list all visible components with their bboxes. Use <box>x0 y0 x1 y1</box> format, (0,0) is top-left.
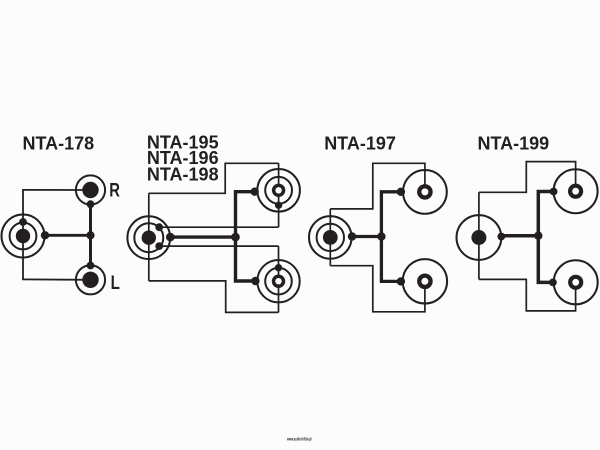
connector top socket circle <box>554 169 598 213</box>
connector J4 center pin <box>471 230 486 245</box>
wire center pin branch path <box>236 192 256 281</box>
connector J4 right terminal dot <box>497 233 505 241</box>
connector bottom socket outer circle <box>257 260 299 302</box>
wire vertical through top socket <box>278 163 280 227</box>
wire top to R center <box>22 189 90 191</box>
svg-text:L: L <box>111 271 120 293</box>
wire center branch path <box>381 192 401 282</box>
connector J4 plug circle <box>457 215 502 260</box>
connector top socket ring <box>272 184 285 197</box>
wire shell loop vertical through plug J1 <box>22 190 24 280</box>
connector top socket ring <box>568 184 583 199</box>
connector top socket outer circle <box>257 169 300 212</box>
wire shell vertical through plug J4 <box>478 192 480 279</box>
connector top socket ring <box>417 184 433 200</box>
svg-text:NTA-199: NTA-199 <box>478 134 550 154</box>
wire top shell staircase <box>479 162 576 193</box>
svg-text:NTA-178: NTA-178 <box>23 134 95 154</box>
connector L center pin <box>82 272 98 288</box>
wire shell vertical through plug J2 <box>148 193 150 281</box>
connector bottom socket ring <box>417 274 433 290</box>
junction node <box>231 233 240 242</box>
connector J3 right terminal dot <box>348 232 356 240</box>
connector J3 plug outer circle <box>309 216 352 259</box>
connector bottom socket left terminal dot <box>549 279 557 287</box>
connector R bottom terminal dot <box>87 200 95 208</box>
connector J2 upper terminal dot <box>155 223 163 231</box>
svg-text:NTA-198: NTA-198 <box>147 164 219 184</box>
wire top shell staircase <box>149 163 279 193</box>
connector J2 stereo plug outer circle <box>127 216 170 259</box>
connector bottom socket top terminal dot <box>275 264 282 271</box>
junction node <box>534 232 542 240</box>
connector bottom socket left terminal dot <box>251 277 259 285</box>
connector J2 right terminal dot <box>166 233 175 242</box>
connector J3 center pin <box>323 230 338 245</box>
wire return to bottom-right dot <box>159 245 278 247</box>
svg-text:www.audio.hifi24.pl: www.audio.hifi24.pl <box>286 437 311 442</box>
connector L top terminal dot <box>87 262 95 270</box>
connector top socket left terminal dot <box>550 188 558 196</box>
connector top socket bottom terminal dot <box>275 202 282 209</box>
wire shell vertical through plug J3 <box>329 209 331 266</box>
wire vertical through bottom socket <box>278 246 280 312</box>
junction node <box>377 232 385 240</box>
wire center pin horizontal to junction <box>501 234 538 238</box>
connector L outer circle <box>76 265 105 294</box>
wire center pin horizontal to junction <box>170 235 235 238</box>
connector bottom socket ring <box>272 275 285 288</box>
connector J2 center pin <box>142 231 156 245</box>
wire center horizontal to junction <box>45 234 91 237</box>
svg-text:R: R <box>109 180 120 201</box>
wire center pin horizontal to junction <box>352 235 381 238</box>
wire bottom to L center <box>22 278 89 280</box>
junction node <box>86 231 94 239</box>
connector J1 right terminal dot <box>41 231 49 239</box>
connector J1 inner circle <box>10 223 37 250</box>
connector J3 inner circle <box>317 224 344 251</box>
connector top socket left terminal dot <box>251 188 259 196</box>
wire bottom shell staircase <box>330 266 425 312</box>
connector J1 top terminal dot <box>19 218 27 226</box>
connector J1 mono plug outer circle <box>2 215 45 258</box>
wire return to top-right dot <box>159 226 278 228</box>
connector top socket left terminal dot <box>397 188 405 196</box>
wire bottom shell staircase <box>479 279 576 311</box>
connector top socket circle <box>403 170 447 214</box>
connector R center pin <box>82 182 98 198</box>
wire center branch path <box>538 192 553 283</box>
connector J2 lower terminal dot <box>155 242 163 250</box>
connector J1 center pin <box>16 229 30 243</box>
svg-text:NTA-197: NTA-197 <box>324 134 396 154</box>
wire bottom shell staircase <box>149 281 279 313</box>
connector bottom socket left terminal dot <box>397 277 405 285</box>
connector J2 inner circle <box>134 223 163 252</box>
connector R outer circle <box>76 175 105 204</box>
connector top socket middle circle <box>265 177 292 204</box>
connector bottom socket circle <box>554 260 598 304</box>
wire vertical R-L shells <box>89 204 92 266</box>
connector bottom socket middle circle <box>265 268 292 295</box>
connector bottom socket ring <box>568 275 583 290</box>
connector bottom socket circle <box>403 259 447 303</box>
wire top shell staircase <box>330 163 425 209</box>
